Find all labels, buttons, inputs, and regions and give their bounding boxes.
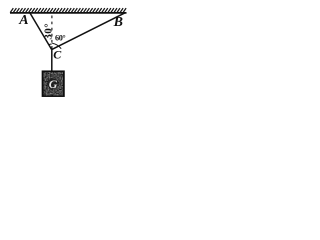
weight label G — [47, 77, 59, 91]
ceiling line — [10, 12, 127, 14]
weight block — [43, 71, 64, 96]
svg-text:A: A — [18, 13, 28, 28]
wire string CA — [30, 13, 52, 50]
ceiling hatching — [10, 8, 126, 13]
svg-text:60°: 60° — [55, 33, 65, 42]
svg-text:G: G — [49, 77, 58, 91]
dashed vertical reference line — [51, 16, 53, 50]
30 degree arc — [49, 43, 52, 46]
svg-text:C: C — [53, 48, 62, 62]
wire string CB — [52, 13, 125, 50]
wire string to weight — [51, 50, 53, 72]
svg-text:30°: 30° — [42, 23, 54, 40]
60 degree arc — [52, 43, 61, 48]
